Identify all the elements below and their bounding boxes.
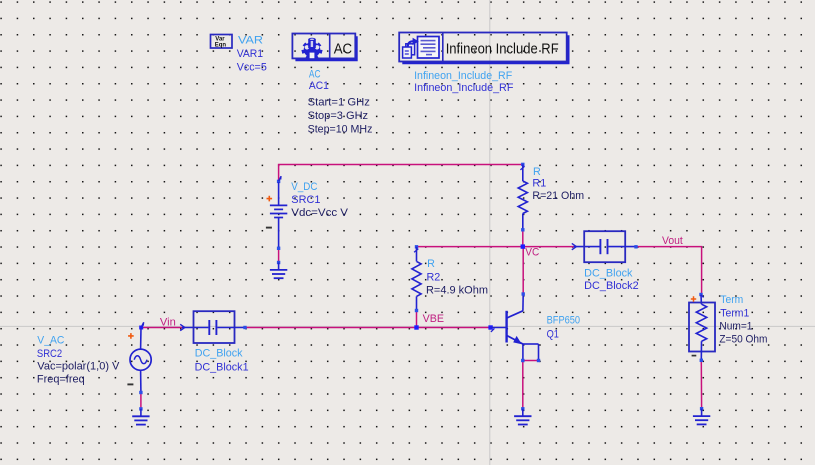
AC simulation controller block [292, 34, 355, 59]
junction base pin [488, 325, 492, 329]
svg-text:DC_Block2: DC_Block2 [584, 280, 639, 292]
svg-text:Step=10 MHz: Step=10 MHz [308, 124, 373, 136]
svg-text:VBE: VBE [423, 313, 444, 325]
svg-text:Vac=polar(1,0) V: Vac=polar(1,0) V [37, 361, 120, 373]
svg-text:DC_Block: DC_Block [195, 348, 243, 360]
svg-text:Num=1: Num=1 [719, 321, 752, 333]
SRC1 minus [266, 227, 272, 229]
svg-text:R=21 Ohm: R=21 Ohm [532, 190, 584, 202]
svg-text:SRC2: SRC2 [37, 348, 62, 360]
resistor R2 [412, 245, 421, 312]
wire Vin segment [141, 327, 182, 329]
svg-text:AC: AC [334, 42, 353, 58]
ground under SRC2 [132, 407, 149, 424]
svg-text:BFP650: BFP650 [547, 315, 581, 327]
svg-text:Z=50 Ohm: Z=50 Ohm [719, 334, 767, 346]
wire R1 bottom to VC [522, 230, 524, 247]
svg-text:R1: R1 [532, 177, 546, 189]
ground under Term1 [693, 407, 710, 424]
svg-text:AC1: AC1 [309, 80, 329, 92]
svg-text:SRC1: SRC1 [291, 194, 320, 206]
svg-text:Term: Term [720, 294, 743, 306]
Infineon include block [399, 33, 567, 62]
junction R2-VBE [414, 325, 418, 329]
svg-text:VAR: VAR [238, 35, 263, 47]
ground under SRC1 [270, 261, 287, 278]
Infineon include icon [403, 37, 439, 59]
wire Term1 to ground [700, 360, 702, 408]
capacitor DC_Block2 [572, 231, 638, 262]
AC simulation controller block shadow [295, 36, 357, 61]
capacitor DC_Block1 [180, 311, 247, 343]
wire collector [522, 247, 524, 294]
ground under Q1 [514, 407, 531, 424]
svg-text:V_AC: V_AC [37, 334, 64, 346]
svg-text:Vcc=5: Vcc=5 [237, 62, 267, 74]
transistor Q1 [491, 292, 541, 362]
SRC2 minus [127, 383, 133, 385]
svg-text:Term1: Term1 [720, 307, 749, 319]
ac source SRC2 [130, 322, 151, 394]
svg-text:V_DC: V_DC [291, 181, 317, 193]
svg-text:R2: R2 [427, 271, 441, 283]
Infineon include block shadow [402, 35, 569, 64]
SRC1 plus [267, 196, 273, 202]
AC gear icon [301, 38, 322, 59]
svg-text:Infineon_Include_RF: Infineon_Include_RF [414, 70, 512, 82]
dc source SRC1 [270, 176, 287, 250]
svg-text:VAR1: VAR1 [237, 48, 263, 60]
origin axis horizontal [0, 325, 815, 327]
wire emitter to ground [522, 361, 524, 409]
wire VBE net [245, 327, 491, 329]
svg-text:Vdc=Vcc V: Vdc=Vcc V [291, 207, 349, 219]
wire SRC2 to ground [140, 393, 142, 409]
resistor R1 [518, 163, 527, 232]
svg-text:Eqn: Eqn [215, 43, 227, 49]
wire top rail Vcc [279, 165, 523, 182]
origin axis vertical [489, 0, 491, 465]
wire R2 bottom to VBE [416, 311, 418, 328]
svg-text:Q1: Q1 [547, 328, 559, 340]
svg-text:R: R [533, 166, 541, 178]
svg-text:Vout: Vout [662, 235, 683, 247]
SRC2 plus [128, 333, 134, 339]
wire SRC1 to ground [278, 249, 280, 263]
svg-text:Stop=3 GHz: Stop=3 GHz [308, 110, 369, 122]
svg-text:Start=1 GHz: Start=1 GHz [308, 97, 370, 109]
VAR equation block VAR1 [211, 35, 233, 49]
svg-text:DC_Block: DC_Block [584, 268, 633, 280]
svg-text:Vin: Vin [160, 316, 176, 328]
svg-text:Infineon Include RF: Infineon Include RF [446, 41, 559, 57]
junction VC node [521, 244, 525, 248]
Term1 plus [691, 296, 696, 301]
svg-text:AC: AC [309, 69, 321, 81]
svg-text:Infineon_Include_RF: Infineon_Include_RF [414, 82, 514, 94]
svg-text:Var: Var [215, 36, 225, 42]
wire VC net [417, 246, 574, 248]
wire VC to Vout corner [636, 247, 702, 295]
terminal Term1 [689, 293, 715, 362]
svg-text:R: R [427, 258, 435, 270]
svg-text:VC: VC [525, 247, 539, 259]
svg-text:Freq=freq: Freq=freq [37, 374, 85, 386]
wire emitter bridge [523, 360, 539, 362]
svg-text:R=4.9 kOhm: R=4.9 kOhm [426, 285, 488, 297]
svg-text:DC_Block1: DC_Block1 [195, 361, 249, 373]
Term1 minus [692, 355, 697, 357]
